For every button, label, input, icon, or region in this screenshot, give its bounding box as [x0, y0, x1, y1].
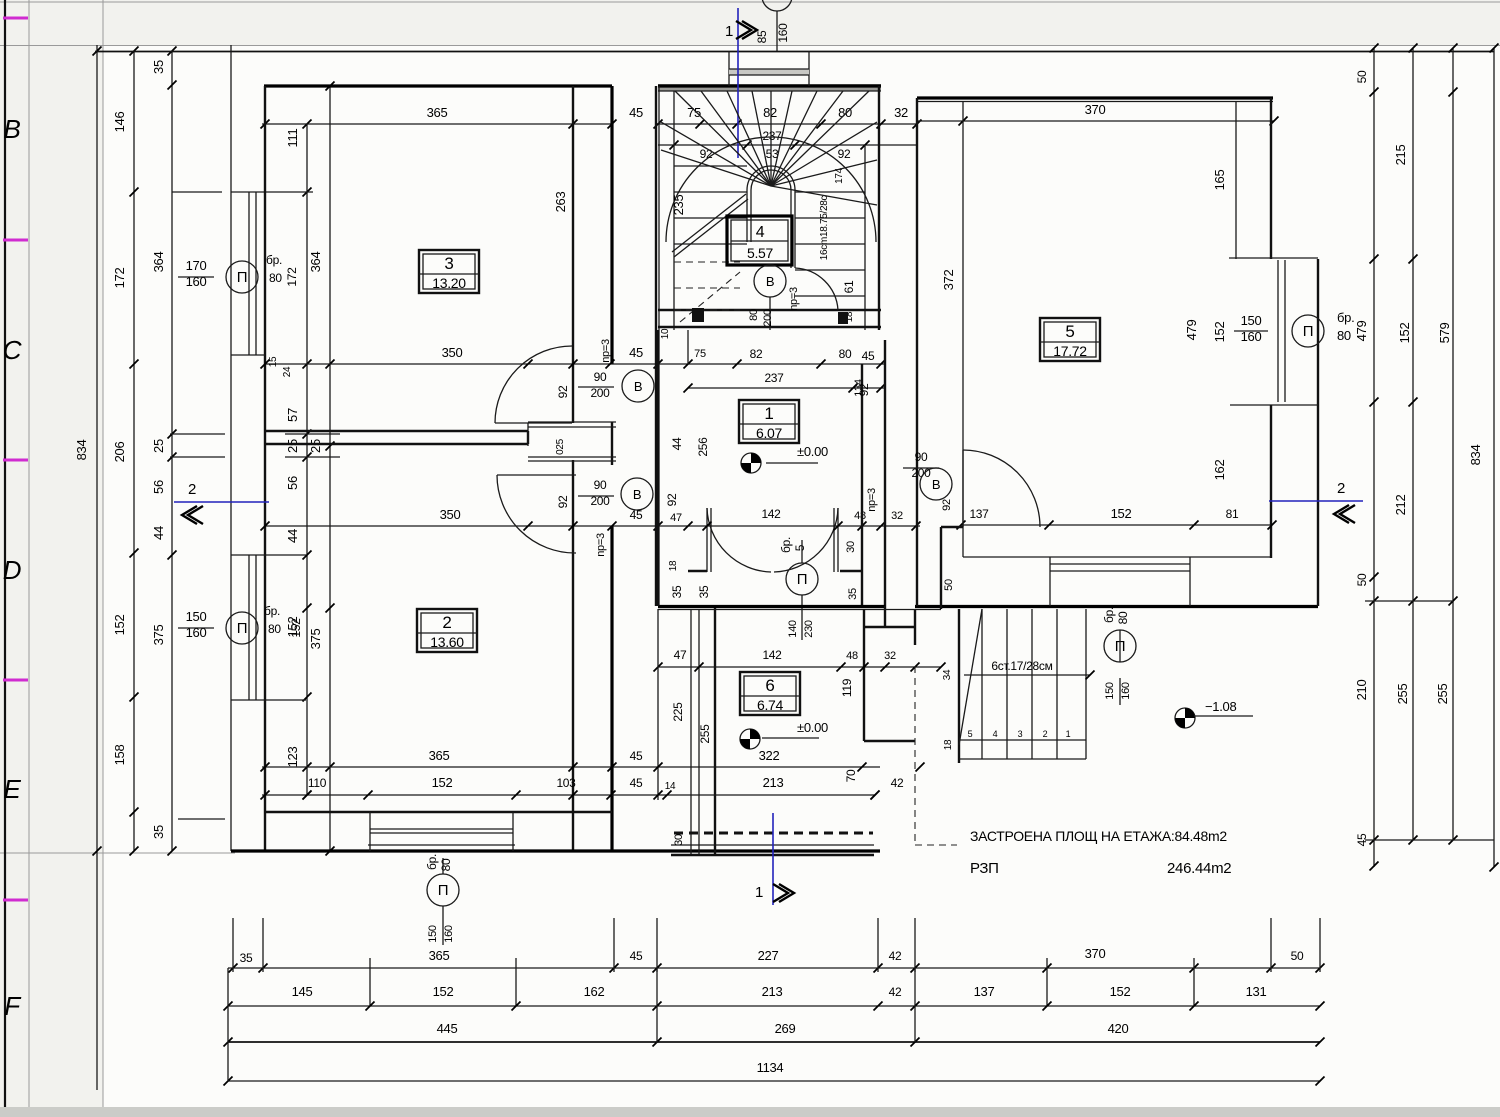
svg-text:1: 1: [755, 884, 763, 901]
svg-text:92: 92: [838, 147, 851, 161]
svg-text:44: 44: [151, 526, 166, 540]
svg-text:370: 370: [1085, 102, 1106, 117]
svg-text:150: 150: [1104, 682, 1116, 700]
svg-text:В: В: [932, 477, 940, 492]
svg-text:25: 25: [285, 439, 300, 453]
svg-text:3: 3: [1018, 729, 1023, 739]
svg-text:160: 160: [1120, 682, 1132, 700]
svg-text:80: 80: [269, 271, 282, 285]
svg-text:82: 82: [750, 347, 763, 361]
svg-text:110: 110: [308, 776, 327, 790]
svg-text:6.74: 6.74: [757, 697, 784, 713]
svg-text:25: 25: [308, 439, 323, 453]
svg-text:44: 44: [670, 437, 684, 450]
svg-text:365: 365: [429, 948, 450, 963]
svg-text:48: 48: [846, 650, 858, 662]
svg-text:365: 365: [427, 105, 448, 120]
svg-text:1: 1: [1066, 729, 1071, 739]
svg-text:90: 90: [594, 370, 607, 384]
svg-text:255: 255: [1395, 684, 1410, 705]
svg-text:162: 162: [1212, 460, 1227, 481]
svg-text:B: B: [3, 114, 20, 144]
svg-text:81: 81: [1226, 507, 1239, 521]
svg-text:35: 35: [151, 825, 166, 839]
svg-text:1: 1: [764, 404, 773, 423]
svg-text:14: 14: [665, 781, 676, 792]
svg-text:246.44m2: 246.44m2: [1167, 860, 1231, 877]
svg-text:бр.: бр.: [1337, 310, 1354, 325]
svg-text:80: 80: [1116, 611, 1130, 624]
svg-text:160: 160: [186, 625, 207, 640]
svg-text:152: 152: [433, 984, 454, 999]
svg-text:269: 269: [775, 1021, 796, 1036]
svg-text:152: 152: [1397, 323, 1412, 344]
svg-text:В: В: [634, 379, 642, 394]
svg-text:24: 24: [282, 366, 293, 377]
svg-text:np=3: np=3: [788, 287, 800, 311]
svg-text:30: 30: [673, 834, 685, 846]
svg-text:255: 255: [698, 724, 712, 744]
svg-text:420: 420: [1108, 1021, 1129, 1036]
svg-text:025: 025: [555, 438, 566, 455]
svg-text:230: 230: [803, 620, 815, 638]
svg-text:F: F: [4, 991, 22, 1021]
svg-text:92: 92: [857, 383, 871, 396]
svg-text:370: 370: [1085, 946, 1106, 961]
svg-text:152: 152: [1111, 506, 1132, 521]
svg-text:90: 90: [915, 450, 928, 464]
svg-text:215: 215: [1393, 145, 1408, 166]
svg-text:±0.00: ±0.00: [797, 444, 828, 459]
svg-text:82: 82: [763, 105, 777, 120]
svg-text:45: 45: [1355, 833, 1369, 846]
svg-text:П: П: [1303, 323, 1313, 340]
svg-text:6ст.17/28см: 6ст.17/28см: [991, 659, 1052, 673]
svg-text:1134: 1134: [757, 1060, 784, 1075]
svg-text:32: 32: [894, 105, 908, 120]
svg-text:200: 200: [590, 386, 610, 400]
svg-text:237: 237: [762, 129, 782, 143]
svg-text:80: 80: [439, 858, 453, 871]
svg-text:4: 4: [756, 224, 765, 241]
svg-text:92: 92: [556, 495, 570, 508]
svg-text:5: 5: [1065, 322, 1074, 341]
svg-text:бр.: бр.: [779, 537, 793, 553]
svg-text:119: 119: [840, 678, 854, 697]
svg-text:142: 142: [762, 648, 782, 662]
svg-text:445: 445: [437, 1021, 458, 1036]
svg-text:56: 56: [285, 476, 300, 490]
svg-text:5: 5: [968, 729, 973, 739]
svg-text:123: 123: [285, 747, 300, 768]
svg-text:44: 44: [285, 529, 300, 543]
svg-text:35: 35: [697, 585, 711, 598]
svg-text:57: 57: [285, 408, 300, 422]
svg-text:П: П: [438, 882, 448, 899]
svg-text:50: 50: [1355, 70, 1369, 83]
svg-text:350: 350: [442, 345, 463, 360]
svg-text:6: 6: [765, 676, 774, 695]
svg-text:−1.08: −1.08: [1205, 699, 1236, 714]
svg-text:5.57: 5.57: [747, 245, 774, 261]
svg-text:2: 2: [188, 481, 196, 498]
svg-text:375: 375: [151, 625, 166, 646]
svg-text:137: 137: [974, 984, 995, 999]
svg-text:213: 213: [763, 775, 784, 790]
svg-text:75: 75: [687, 105, 701, 120]
svg-text:80: 80: [748, 309, 760, 321]
svg-text:172: 172: [112, 268, 127, 289]
svg-text:34: 34: [942, 669, 953, 680]
svg-text:17.72: 17.72: [1053, 343, 1087, 359]
svg-text:235: 235: [671, 195, 686, 216]
svg-text:D: D: [3, 555, 21, 585]
svg-text:35: 35: [847, 588, 859, 600]
svg-text:np=3: np=3: [866, 488, 878, 512]
svg-text:140: 140: [787, 620, 799, 638]
svg-text:50: 50: [1355, 573, 1369, 586]
svg-text:92: 92: [665, 493, 679, 506]
svg-text:213: 213: [762, 984, 783, 999]
svg-text:2: 2: [1043, 729, 1048, 739]
svg-text:75: 75: [694, 348, 706, 360]
svg-text:834: 834: [74, 440, 89, 461]
svg-text:47: 47: [670, 512, 682, 524]
svg-text:225: 225: [671, 702, 685, 722]
svg-text:13.60: 13.60: [430, 634, 464, 650]
svg-text:70: 70: [844, 769, 858, 782]
svg-text:92: 92: [556, 385, 570, 398]
svg-text:50: 50: [943, 579, 955, 591]
svg-text:150: 150: [427, 925, 439, 943]
svg-text:В: В: [633, 487, 641, 502]
svg-text:160: 160: [776, 23, 790, 43]
svg-text:152: 152: [1110, 984, 1131, 999]
svg-text:322: 322: [759, 748, 780, 763]
svg-text:2: 2: [1337, 480, 1345, 497]
svg-text:90: 90: [594, 478, 607, 492]
svg-text:бр.: бр.: [266, 253, 282, 267]
svg-text:103: 103: [556, 776, 576, 790]
svg-text:np=3: np=3: [595, 533, 607, 557]
svg-text:146: 146: [112, 112, 127, 133]
svg-text:42: 42: [891, 776, 904, 790]
svg-text:375: 375: [308, 629, 323, 650]
svg-text:200: 200: [762, 309, 774, 327]
svg-text:45: 45: [629, 105, 643, 120]
svg-text:3: 3: [444, 254, 453, 273]
svg-text:48: 48: [854, 510, 866, 522]
svg-text:25: 25: [151, 439, 166, 453]
svg-text:45: 45: [629, 345, 643, 360]
svg-text:834: 834: [1468, 445, 1483, 466]
svg-text:145: 145: [292, 984, 313, 999]
svg-text:±0.00: ±0.00: [797, 720, 828, 735]
svg-text:45: 45: [630, 776, 643, 790]
svg-text:152: 152: [1212, 322, 1227, 343]
svg-text:П: П: [237, 620, 247, 637]
svg-text:30: 30: [845, 541, 857, 553]
svg-text:13.20: 13.20: [432, 275, 466, 291]
svg-text:160: 160: [443, 925, 455, 943]
svg-text:45: 45: [630, 949, 643, 963]
svg-text:579: 579: [1437, 323, 1452, 344]
svg-text:бр.: бр.: [1102, 607, 1116, 623]
svg-text:42: 42: [889, 985, 902, 999]
svg-text:212: 212: [1393, 495, 1408, 516]
svg-text:210: 210: [1354, 680, 1369, 701]
svg-text:47: 47: [674, 648, 687, 662]
svg-text:32: 32: [891, 510, 903, 522]
svg-text:162: 162: [584, 984, 605, 999]
svg-text:206: 206: [112, 442, 127, 463]
svg-text:479: 479: [1184, 320, 1199, 341]
svg-text:165: 165: [1212, 170, 1227, 191]
svg-text:152: 152: [289, 618, 303, 638]
svg-text:80: 80: [1337, 328, 1351, 343]
svg-text:18: 18: [668, 560, 679, 571]
svg-text:35: 35: [240, 951, 253, 965]
svg-text:256: 256: [696, 437, 710, 457]
svg-text:142: 142: [761, 507, 781, 521]
svg-text:158: 158: [112, 745, 127, 766]
svg-text:1: 1: [725, 23, 733, 40]
svg-text:45: 45: [630, 749, 643, 763]
svg-text:E: E: [3, 774, 21, 804]
svg-text:РЗП: РЗП: [970, 860, 999, 877]
svg-text:5: 5: [793, 544, 807, 551]
svg-text:479: 479: [1354, 321, 1369, 342]
svg-text:80: 80: [838, 105, 852, 120]
svg-text:П: П: [237, 269, 247, 286]
svg-text:263: 263: [553, 192, 568, 213]
svg-text:6.07: 6.07: [756, 425, 783, 441]
svg-text:255: 255: [1435, 684, 1450, 705]
svg-text:150: 150: [1241, 313, 1262, 328]
svg-text:372: 372: [941, 270, 956, 291]
svg-text:45: 45: [862, 349, 875, 363]
svg-text:80: 80: [839, 347, 852, 361]
svg-text:364: 364: [308, 252, 323, 273]
svg-text:32: 32: [884, 650, 896, 662]
svg-text:92: 92: [941, 499, 953, 511]
svg-text:бр.: бр.: [425, 854, 439, 870]
svg-text:227: 227: [758, 948, 779, 963]
svg-text:42: 42: [889, 949, 902, 963]
svg-text:35: 35: [670, 585, 684, 598]
svg-text:364: 364: [151, 252, 166, 273]
svg-text:18: 18: [943, 739, 954, 750]
svg-text:50: 50: [1291, 949, 1304, 963]
svg-text:П: П: [797, 571, 807, 588]
svg-text:137: 137: [969, 507, 989, 521]
svg-text:152: 152: [112, 615, 127, 636]
svg-text:80: 80: [268, 622, 281, 636]
svg-text:4: 4: [993, 729, 998, 739]
svg-text:10: 10: [660, 328, 671, 339]
svg-text:150: 150: [186, 609, 207, 624]
svg-text:111: 111: [285, 129, 300, 148]
svg-text:152: 152: [432, 775, 453, 790]
svg-text:85: 85: [755, 30, 769, 43]
svg-text:61: 61: [842, 280, 856, 293]
svg-text:16cm18.75/28c: 16cm18.75/28c: [819, 195, 830, 260]
svg-text:35: 35: [151, 60, 166, 74]
svg-text:131: 131: [1246, 984, 1267, 999]
svg-text:237: 237: [764, 371, 784, 385]
svg-text:np=3: np=3: [600, 339, 612, 363]
svg-text:В: В: [766, 274, 774, 289]
svg-text:170: 170: [186, 258, 207, 273]
svg-text:56: 56: [151, 480, 166, 494]
svg-text:365: 365: [429, 748, 450, 763]
svg-text:бр.: бр.: [264, 604, 280, 618]
svg-text:172: 172: [285, 267, 299, 287]
svg-text:ЗАСТРОЕНА ПЛОЩ НА ЕТАЖА:84.48m: ЗАСТРОЕНА ПЛОЩ НА ЕТАЖА:84.48m2: [970, 828, 1227, 844]
svg-text:15: 15: [268, 356, 279, 367]
svg-text:160: 160: [186, 274, 207, 289]
svg-text:350: 350: [440, 507, 461, 522]
svg-text:C: C: [3, 335, 22, 365]
svg-text:2: 2: [442, 613, 451, 632]
